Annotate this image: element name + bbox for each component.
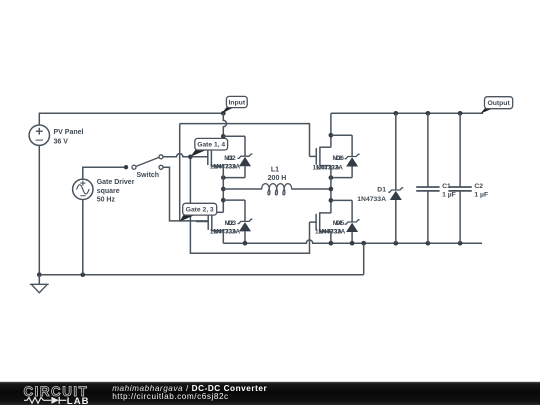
capacitor C2 bbox=[459, 113, 461, 187]
wire top rail right bbox=[331, 112, 483, 114]
node D3 anode rail bbox=[243, 241, 248, 246]
svg-text:1N4733A: 1N4733A bbox=[213, 163, 240, 170]
diode D6 1N4733A bbox=[351, 135, 353, 156]
mosfet M3 bbox=[310, 155, 317, 157]
svg-text:1 µF: 1 µF bbox=[442, 192, 456, 199]
svg-text:50 Hz: 50 Hz bbox=[97, 197, 116, 204]
svg-text:1N4733A: 1N4733A bbox=[316, 164, 343, 171]
flag Input bbox=[222, 107, 236, 114]
node inductor right bbox=[329, 187, 334, 192]
wire top rail left bbox=[39, 112, 224, 114]
svg-text:Gate Driver: Gate Driver bbox=[97, 179, 135, 186]
svg-text:square: square bbox=[97, 188, 120, 195]
ground bbox=[38, 275, 40, 285]
voltage source V2 Gate Driver bbox=[73, 179, 93, 199]
node M4 source rail bbox=[329, 241, 334, 246]
wire D6 anode return bbox=[331, 177, 352, 179]
svg-text:D1: D1 bbox=[377, 186, 386, 193]
svg-text:D3: D3 bbox=[228, 220, 237, 227]
voltage source V1 PV Panel bbox=[29, 125, 49, 145]
diode D3 1N4733A bbox=[244, 200, 246, 221]
svg-text:200 H: 200 H bbox=[268, 175, 287, 182]
wire input drop with hop bbox=[223, 113, 226, 147]
svg-text:D5: D5 bbox=[336, 220, 345, 227]
node gate 1-4 bbox=[188, 154, 193, 159]
node Input junction bbox=[221, 111, 226, 116]
node D1 anode rail bbox=[393, 241, 398, 246]
wire switch to gate 2-3 node bbox=[163, 167, 208, 221]
wire V2 top lead bbox=[83, 167, 127, 179]
node D5 anode rail bbox=[350, 241, 355, 246]
wire to D3 cathode bbox=[223, 199, 245, 201]
svg-text:1 µF: 1 µF bbox=[474, 192, 488, 199]
node D1 top bbox=[393, 111, 398, 116]
wire switch to M1 gate with hop bbox=[163, 154, 208, 157]
wire right leg top bbox=[330, 113, 332, 147]
mosfet M4 bbox=[310, 221, 317, 223]
wire to D5 cathode bbox=[331, 199, 352, 201]
svg-text:Output: Output bbox=[487, 100, 510, 107]
node D2 branch bbox=[221, 134, 226, 139]
svg-text:L1: L1 bbox=[271, 166, 279, 173]
flag Gate 2, 3 bbox=[180, 214, 197, 221]
node M1 source / D2 bbox=[221, 175, 226, 180]
wire to D6 cathode bbox=[331, 134, 352, 136]
wire gate 2-3 top run bbox=[180, 124, 310, 157]
svg-text:Gate 1, 4: Gate 1, 4 bbox=[197, 142, 225, 149]
wire left leg mid bbox=[222, 166, 224, 212]
node C1 top bbox=[426, 111, 431, 116]
svg-text:LAB: LAB bbox=[67, 396, 90, 405]
svg-text:1N4733A: 1N4733A bbox=[213, 229, 240, 236]
node C1 bottom rail bbox=[426, 241, 431, 246]
diode D1 1N4733A bbox=[395, 113, 397, 190]
svg-text:Switch: Switch bbox=[137, 172, 160, 179]
inductor L1 bbox=[262, 184, 292, 195]
svg-text:D6: D6 bbox=[336, 155, 345, 162]
svg-text:Input: Input bbox=[228, 100, 245, 107]
flag Gate 1, 4 bbox=[190, 149, 208, 157]
wire right leg mid bbox=[330, 166, 332, 214]
node inductor left bbox=[221, 187, 226, 192]
wire M4 source drop bbox=[330, 231, 332, 243]
svg-text:Gate 2, 3: Gate 2, 3 bbox=[186, 207, 214, 214]
node D3 branch bbox=[221, 198, 226, 203]
diode D2 1N4733A bbox=[244, 136, 246, 156]
wire V2 bottom lead bbox=[82, 200, 84, 275]
wire V1 top lead bbox=[38, 113, 40, 125]
switch SW1 bbox=[124, 165, 128, 169]
footer bar bbox=[0, 382, 540, 405]
node ground riser rail bbox=[361, 241, 366, 246]
wire D2 anode return bbox=[223, 177, 245, 179]
wire gate 1-4 riser to M4 bbox=[190, 157, 309, 253]
wire ground riser bbox=[363, 243, 365, 275]
mosfet M2 bbox=[196, 221, 208, 223]
wire inductor left bbox=[223, 188, 262, 190]
wire to D2 cathode bbox=[223, 135, 245, 137]
capacitor C1 bbox=[427, 113, 429, 187]
node V2 ground junction bbox=[80, 272, 85, 277]
node ground junction bbox=[37, 272, 42, 277]
wire bottom rail with hop bbox=[223, 240, 482, 243]
flag Output bbox=[480, 108, 494, 114]
logo resistor-diode icon bbox=[24, 397, 51, 403]
svg-text:1N4733A: 1N4733A bbox=[318, 229, 345, 236]
svg-text:http://circuitlab.com/c6sj82c: http://circuitlab.com/c6sj82c bbox=[112, 392, 229, 401]
wire V1 bottom lead bbox=[38, 145, 40, 274]
diode D5 1N4733A bbox=[351, 200, 353, 222]
node C2 bottom rail bbox=[458, 241, 463, 246]
node C2 top bbox=[458, 111, 463, 116]
wire gate 2-3 vertical bbox=[179, 124, 181, 221]
node D6 branch bbox=[329, 133, 334, 138]
svg-text:C2: C2 bbox=[474, 183, 483, 190]
node M3 source / D6 bbox=[329, 175, 334, 180]
wire ground rail bbox=[39, 274, 363, 276]
svg-text:D2: D2 bbox=[227, 155, 236, 162]
svg-text:PV Panel: PV Panel bbox=[54, 129, 84, 136]
svg-text:1N4733A: 1N4733A bbox=[357, 196, 386, 203]
wire inductor right bbox=[292, 188, 331, 190]
svg-text:36 V: 36 V bbox=[54, 139, 69, 146]
wire M2 source drop bbox=[222, 231, 224, 244]
node D5 branch bbox=[329, 198, 334, 203]
mosfet M1 bbox=[190, 156, 207, 158]
